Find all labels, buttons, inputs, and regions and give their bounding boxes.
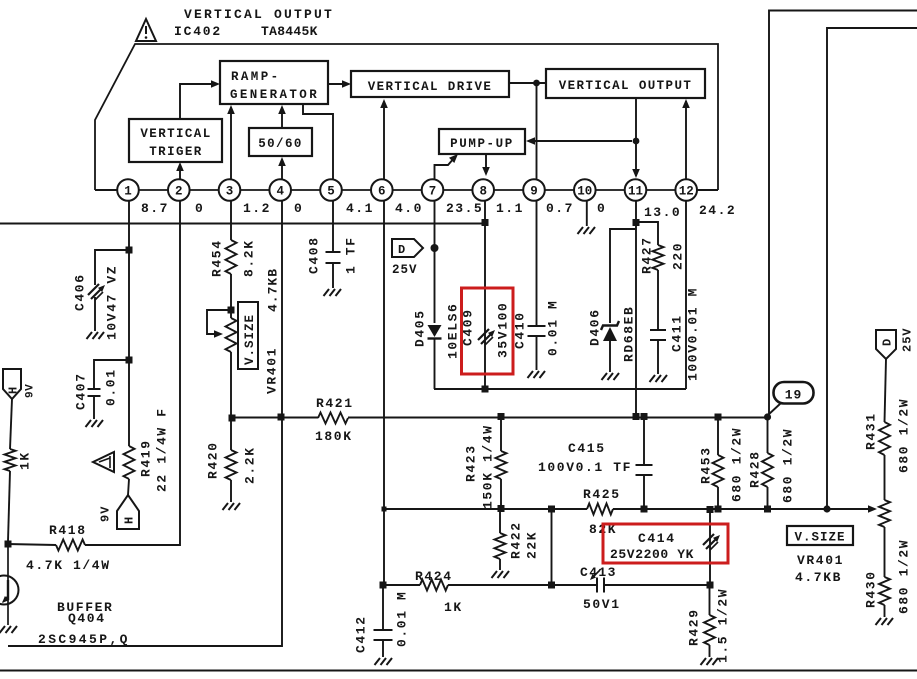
resistor R419 bbox=[124, 446, 135, 479]
svg-text:R419: R419 bbox=[139, 439, 154, 477]
svg-text:IC402: IC402 bbox=[174, 24, 222, 39]
wire to R427 bbox=[636, 222, 658, 245]
svg-text:D: D bbox=[881, 339, 895, 346]
svg-text:100V0.01 M: 100V0.01 M bbox=[686, 287, 701, 381]
svg-text:9V: 9V bbox=[99, 506, 113, 522]
ground R422 bbox=[492, 571, 498, 578]
svg-text:C406: C406 bbox=[73, 273, 88, 311]
wire R422 bottom bbox=[499, 559, 501, 570]
wire pot to rail bbox=[230, 352, 232, 418]
svg-text:0.01 M: 0.01 M bbox=[395, 591, 410, 647]
wire R423 bottom bbox=[500, 479, 502, 508]
wire pin8 down bbox=[484, 201, 486, 389]
ground Q404 emitter bbox=[0, 626, 5, 633]
flag H 9V supply bbox=[117, 495, 139, 529]
svg-text:1K: 1K bbox=[444, 600, 463, 615]
svg-text:8.7: 8.7 bbox=[141, 201, 169, 216]
svg-text:220: 220 bbox=[671, 242, 686, 270]
wire R453 bottom bbox=[717, 487, 719, 509]
wire R419 to H flag bbox=[128, 479, 129, 495]
capacitor C414 bbox=[703, 534, 714, 545]
svg-text:23.5: 23.5 bbox=[446, 201, 483, 216]
svg-text:25V: 25V bbox=[392, 263, 418, 277]
node junction C414 top bbox=[707, 506, 714, 513]
wire R453 top bbox=[717, 417, 719, 455]
svg-text:VERTICAL DRIVE: VERTICAL DRIVE bbox=[368, 80, 493, 94]
ground R420 bbox=[223, 503, 229, 510]
svg-text:24.2: 24.2 bbox=[699, 203, 736, 218]
wire vertical drive to vertical output bbox=[509, 82, 546, 84]
label V.SIZE boxed right bbox=[787, 526, 853, 545]
wire pin12 down to bottom rail bbox=[685, 201, 687, 389]
wire R431 to pot bbox=[884, 455, 886, 500]
resistor R430 bbox=[879, 577, 890, 605]
resistor R431 bbox=[879, 422, 890, 455]
wire R428 bottom bbox=[767, 487, 769, 509]
svg-text:VR401: VR401 bbox=[265, 347, 280, 394]
IC U402 outline bbox=[95, 44, 718, 190]
resistor R428 bbox=[762, 453, 773, 487]
ground D406 bbox=[602, 373, 608, 380]
svg-text:5: 5 bbox=[327, 185, 335, 199]
svg-text:180K: 180K bbox=[315, 429, 353, 444]
svg-text:C412: C412 bbox=[354, 615, 369, 653]
pin 10 of IC402 bbox=[574, 179, 596, 201]
svg-text:0.7: 0.7 bbox=[546, 201, 574, 216]
node junction pot top bbox=[228, 307, 235, 314]
node junction pin7 D flag bbox=[431, 244, 439, 252]
svg-text:50V1: 50V1 bbox=[583, 597, 621, 612]
ground C408 bbox=[324, 289, 330, 296]
svg-text:4.7KB: 4.7KB bbox=[795, 570, 842, 585]
resistor R425 bbox=[587, 504, 613, 515]
flag H input top-left bbox=[3, 369, 21, 399]
wire rail lower (R425 net) bbox=[384, 508, 587, 510]
resistor R421 bbox=[318, 413, 348, 424]
node 19 connector bbox=[774, 382, 814, 404]
svg-text:1.1: 1.1 bbox=[496, 201, 524, 216]
svg-text:1: 1 bbox=[124, 185, 132, 199]
potentiometer VR401 V.SIZE bbox=[226, 318, 237, 352]
resistor 1K bbox=[5, 449, 16, 471]
svg-text:680 1/2W: 680 1/2W bbox=[781, 428, 796, 503]
ground C407 bbox=[86, 420, 92, 427]
svg-text:RAMP-: RAMP- bbox=[231, 70, 281, 84]
wire pump-up to pin8 bbox=[485, 154, 487, 173]
svg-text:R429: R429 bbox=[687, 608, 702, 646]
svg-text:R421: R421 bbox=[316, 396, 354, 411]
svg-text:R430: R430 bbox=[864, 570, 879, 608]
svg-text:1.2: 1.2 bbox=[243, 201, 271, 216]
capacitor C412 bbox=[374, 629, 393, 631]
svg-text:D406: D406 bbox=[588, 308, 603, 346]
node junction R423 bottom bbox=[498, 505, 505, 512]
pin 6 of IC402 bbox=[371, 179, 393, 201]
svg-text:R422: R422 bbox=[509, 521, 524, 559]
node junction R428 top bbox=[764, 413, 771, 420]
node junction rail-827 bbox=[823, 505, 830, 512]
pin 1 of IC402 bbox=[117, 179, 139, 201]
svg-text:VERTICAL OUTPUT: VERTICAL OUTPUT bbox=[559, 79, 693, 93]
svg-text:35V100: 35V100 bbox=[496, 302, 511, 358]
wire rail C413 net bbox=[383, 584, 420, 586]
svg-text:10: 10 bbox=[577, 185, 592, 199]
node junction pin8 rail bbox=[482, 219, 489, 226]
svg-text:4.1: 4.1 bbox=[346, 201, 374, 216]
wire R428 top bbox=[767, 417, 769, 453]
block 50/60 bbox=[249, 128, 312, 156]
svg-text:10V47 VZ: 10V47 VZ bbox=[105, 265, 120, 340]
wire pot to R430 bbox=[884, 527, 886, 577]
highlight box C409 bbox=[462, 288, 514, 374]
wire vertical output to pin11 bbox=[635, 98, 637, 176]
resistor R427 bbox=[653, 245, 664, 270]
svg-text:0: 0 bbox=[597, 201, 606, 216]
ground C406 bbox=[87, 332, 93, 339]
wire pin7 to pump-up bbox=[435, 157, 456, 179]
block VERTICAL DRIVE bbox=[351, 71, 509, 97]
wire pin3 down bbox=[230, 201, 232, 240]
wire ramp-generator to vertical drive bbox=[328, 83, 347, 85]
node junction C406 tap bbox=[126, 247, 133, 254]
wire C413 drop bbox=[551, 509, 553, 585]
ground C412 bbox=[375, 658, 381, 665]
svg-text:C411: C411 bbox=[670, 314, 685, 352]
capacitor C406 bbox=[88, 284, 99, 295]
svg-text:C415: C415 bbox=[568, 441, 606, 456]
wire D405 to bottom rail bbox=[434, 339, 436, 389]
ground pin10 bbox=[578, 227, 584, 234]
wire trigger to ramp-generator bbox=[180, 84, 216, 119]
node junction pin6 C412 bbox=[380, 582, 387, 589]
svg-text:2.2K: 2.2K bbox=[243, 446, 258, 484]
svg-text:GENERATOR: GENERATOR bbox=[230, 88, 319, 102]
pin 7 of IC402 bbox=[422, 179, 444, 201]
pin 5 of IC402 bbox=[320, 179, 342, 201]
svg-text:R425: R425 bbox=[583, 487, 621, 502]
svg-text:VERTICAL: VERTICAL bbox=[140, 127, 211, 141]
node junction pin11 rail bbox=[633, 413, 640, 420]
svg-text:1 TF: 1 TF bbox=[344, 236, 359, 274]
block VERTICAL TRIGER bbox=[129, 119, 222, 162]
triangle symbol near R419 bbox=[93, 452, 114, 472]
capacitor C409 bbox=[478, 329, 489, 340]
block VERTICAL OUTPUT bbox=[546, 69, 705, 98]
wire R427 to C411 bbox=[657, 270, 659, 330]
pin 4 of IC402 bbox=[269, 179, 291, 201]
svg-text:VERTICAL OUTPUT: VERTICAL OUTPUT bbox=[184, 7, 334, 22]
node junction Q404 collector bbox=[5, 541, 12, 548]
svg-text:C414: C414 bbox=[638, 531, 676, 546]
svg-text:2SC945P,Q: 2SC945P,Q bbox=[38, 632, 130, 647]
wire pin7 down bbox=[434, 201, 436, 323]
svg-text:R423: R423 bbox=[464, 444, 479, 482]
svg-text:TRIGER: TRIGER bbox=[149, 145, 202, 159]
node junction R453 bottom bbox=[715, 506, 722, 513]
wire pin1 to IC edge bbox=[95, 189, 118, 191]
ground C410 bbox=[528, 371, 534, 378]
wire C412 down bbox=[382, 585, 384, 629]
svg-text:680 1/2W: 680 1/2W bbox=[897, 398, 912, 473]
resistor R453 bbox=[713, 455, 724, 487]
node junction C413 left bbox=[548, 582, 555, 589]
diode D405 bbox=[428, 325, 442, 337]
transistor Q404 bbox=[0, 576, 19, 605]
svg-text:12: 12 bbox=[679, 185, 694, 199]
svg-text:25V: 25V bbox=[901, 327, 915, 352]
capacitor C411 bbox=[650, 329, 666, 331]
pin 3 of IC402 bbox=[219, 179, 241, 201]
svg-text:25V2200 YK: 25V2200 YK bbox=[610, 547, 694, 562]
svg-text:3: 3 bbox=[226, 185, 234, 199]
node junction R423 top bbox=[498, 413, 505, 420]
svg-text:C408: C408 bbox=[307, 236, 322, 274]
wire top-right outer exit bbox=[769, 11, 917, 418]
wire D flag to R431 bbox=[885, 359, 887, 422]
wire C406 branch bbox=[95, 250, 129, 285]
svg-text:V.SIZE: V.SIZE bbox=[794, 531, 845, 545]
resistor R424 bbox=[420, 580, 448, 591]
resistor R420 bbox=[226, 450, 237, 480]
resistor R422 bbox=[495, 533, 506, 559]
pin 8 of IC402 bbox=[472, 179, 494, 201]
svg-text:4.7KB: 4.7KB bbox=[266, 268, 281, 312]
wire R430 to ground bbox=[884, 605, 886, 617]
svg-text:R420: R420 bbox=[206, 441, 221, 479]
svg-text:C413: C413 bbox=[580, 565, 617, 580]
svg-text:Q404: Q404 bbox=[68, 611, 106, 626]
wire C415 bottom bbox=[643, 475, 645, 509]
capacitor C408 bbox=[326, 251, 341, 253]
node junction vdrive-voutput bbox=[533, 80, 540, 87]
svg-text:4.0: 4.0 bbox=[395, 201, 423, 216]
svg-text:R453: R453 bbox=[699, 446, 714, 484]
wire pin5 down bbox=[332, 201, 334, 251]
svg-text:1.5 1/2W: 1.5 1/2W bbox=[716, 588, 731, 663]
wire rail under pins bbox=[0, 223, 485, 225]
capacitor C415 bbox=[636, 464, 653, 466]
wire to D406 bbox=[610, 229, 636, 323]
wire pin1 down bbox=[128, 201, 130, 446]
svg-text:22 1/4W F: 22 1/4W F bbox=[155, 407, 170, 492]
svg-text:150K 1/4W: 150K 1/4W bbox=[481, 424, 496, 509]
wire pin10 down bbox=[586, 201, 588, 226]
node junction R453 top bbox=[715, 414, 722, 421]
svg-text:100V0.1 TF: 100V0.1 TF bbox=[538, 460, 632, 475]
wire pot2 wiper arrow bbox=[868, 505, 877, 513]
svg-text:22K: 22K bbox=[525, 531, 540, 559]
node junction pin6 rail lower bbox=[382, 507, 387, 512]
svg-text:R431: R431 bbox=[864, 412, 879, 450]
node junction pump-up feed bbox=[633, 138, 640, 145]
warning triangle symbol bbox=[136, 19, 156, 41]
wire junction to pump-up bbox=[529, 140, 632, 142]
block RAMP-GENERATOR bbox=[220, 61, 328, 104]
resistor R429 bbox=[704, 615, 715, 645]
resistor R423 bbox=[496, 451, 507, 479]
svg-text:V.SIZE: V.SIZE bbox=[243, 314, 257, 365]
wire R423 top bbox=[500, 416, 502, 451]
svg-text:0.01 M: 0.01 M bbox=[546, 300, 561, 356]
node junction pot bottom rail bbox=[229, 415, 236, 422]
svg-text:H: H bbox=[7, 387, 21, 394]
svg-text:VR401: VR401 bbox=[797, 553, 844, 568]
wire pin3 to ramp-generator bbox=[230, 108, 232, 179]
svg-text:R418: R418 bbox=[49, 523, 87, 538]
wire R418 to junction bbox=[7, 544, 56, 545]
svg-text:C407: C407 bbox=[74, 372, 89, 410]
block PUMP-UP bbox=[439, 129, 525, 154]
svg-text:4.7K 1/4W: 4.7K 1/4W bbox=[26, 558, 111, 573]
wire top-right inner exit bbox=[827, 28, 917, 509]
node junction C413 drop bbox=[548, 506, 555, 513]
wire pin2 down to R418 bbox=[85, 201, 180, 545]
svg-text:D405: D405 bbox=[413, 309, 428, 347]
ground R429 bbox=[701, 658, 707, 665]
capacitor C413 bbox=[596, 578, 598, 593]
svg-text:H: H bbox=[123, 517, 137, 524]
potentiometer VR401 second bbox=[879, 500, 890, 527]
capacitor C410 bbox=[528, 325, 546, 327]
resistor R418 bbox=[56, 540, 85, 551]
flag D 25V right bbox=[876, 330, 896, 359]
node junction C415 top bbox=[641, 413, 648, 420]
svg-text:11: 11 bbox=[628, 185, 643, 199]
wire D406 to ground bbox=[609, 341, 611, 372]
svg-text:680 1/2W: 680 1/2W bbox=[897, 539, 912, 614]
wire pin12 to vertical output bbox=[685, 101, 687, 179]
ground C411 bbox=[650, 375, 656, 382]
wire pin11 down bbox=[635, 201, 637, 416]
resistor R429 wire bbox=[709, 585, 711, 615]
wire pin9 down bbox=[536, 201, 538, 325]
svg-text:C410: C410 bbox=[513, 311, 528, 349]
wire 50/60 to ramp-generator bbox=[281, 108, 283, 128]
svg-text:6: 6 bbox=[378, 185, 386, 199]
capacitor C407 bbox=[88, 388, 101, 390]
node junction pin8 bottom rail bbox=[482, 386, 489, 393]
wire junction to pin9 bbox=[536, 83, 538, 179]
svg-text:13.0: 13.0 bbox=[644, 205, 681, 220]
wire pin12 to IC edge bbox=[697, 189, 718, 191]
svg-text:680 1/2W: 680 1/2W bbox=[730, 427, 745, 502]
node junction pin11 top bbox=[633, 219, 640, 226]
wire R454 to pot bbox=[230, 274, 232, 318]
flag D 25V bbox=[392, 239, 423, 257]
wire pin6 down bbox=[383, 201, 385, 585]
wire 1K to junction bbox=[8, 471, 10, 541]
svg-text:19: 19 bbox=[785, 388, 803, 403]
diode D406 zener bbox=[603, 327, 617, 341]
wire C407 branch bbox=[94, 360, 129, 388]
node junction pin4 rail bbox=[278, 414, 285, 421]
IC pin bus line bbox=[118, 189, 697, 191]
wire rail mid (R421 net) bbox=[232, 417, 318, 419]
svg-text:8.2K: 8.2K bbox=[242, 239, 257, 277]
wire rail to R420 bbox=[230, 418, 232, 450]
wire R420 to ground bbox=[230, 480, 232, 502]
resistor R454 bbox=[226, 240, 237, 274]
svg-text:7: 7 bbox=[429, 185, 437, 199]
wire R429 to ground bbox=[709, 645, 711, 657]
svg-text:0.01: 0.01 bbox=[104, 368, 119, 406]
svg-text:D: D bbox=[398, 243, 405, 257]
svg-text:9V: 9V bbox=[25, 384, 37, 398]
svg-text:10ELS6: 10ELS6 bbox=[446, 303, 461, 359]
svg-text:8: 8 bbox=[479, 185, 487, 199]
node junction C414 bottom bbox=[707, 582, 714, 589]
svg-text:RD68EB: RD68EB bbox=[622, 306, 637, 362]
svg-text:R428: R428 bbox=[748, 450, 763, 488]
svg-text:2: 2 bbox=[175, 185, 183, 199]
svg-text:TA8445K: TA8445K bbox=[261, 24, 318, 39]
wire pin2 to trigger bbox=[179, 165, 181, 179]
wire pin4 to 50/60 bbox=[281, 160, 283, 179]
svg-text:PUMP-UP: PUMP-UP bbox=[450, 137, 514, 151]
wire ramp-generator to pin5 bbox=[303, 104, 333, 179]
wire H flag to 1K bbox=[10, 399, 12, 449]
label V.SIZE boxed (rotated) bbox=[238, 302, 258, 369]
svg-text:1K: 1K bbox=[18, 451, 33, 470]
svg-text:R454: R454 bbox=[210, 239, 225, 277]
wire R422 top bbox=[499, 508, 501, 533]
pin 9 of IC402 bbox=[523, 179, 545, 201]
svg-text:0: 0 bbox=[195, 201, 204, 216]
pin 11 of IC402 bbox=[625, 179, 647, 201]
svg-text:R427: R427 bbox=[640, 236, 655, 274]
ground R430 bbox=[876, 618, 882, 625]
svg-text:9: 9 bbox=[530, 185, 538, 199]
wire rail pin4 bottom net bbox=[8, 201, 282, 646]
node junction C415 bottom bbox=[641, 506, 648, 513]
wire C414 down bbox=[709, 509, 711, 585]
svg-text:0: 0 bbox=[294, 201, 303, 216]
wire bottom frame line bbox=[0, 670, 917, 672]
pin 12 of IC402 bbox=[675, 179, 697, 201]
svg-text:50/60: 50/60 bbox=[258, 137, 303, 151]
svg-text:R424: R424 bbox=[415, 569, 453, 584]
wire rail D405 bottom net bbox=[434, 388, 686, 390]
highlight box C414 bbox=[603, 524, 728, 563]
node junction C407 tap bbox=[126, 357, 133, 364]
wire pin6 to vertical drive bbox=[383, 102, 385, 179]
svg-text:4: 4 bbox=[276, 185, 284, 199]
wire C415 top bbox=[643, 416, 645, 464]
node junction R428 bottom bbox=[764, 506, 771, 513]
pin 2 of IC402 bbox=[168, 179, 190, 201]
